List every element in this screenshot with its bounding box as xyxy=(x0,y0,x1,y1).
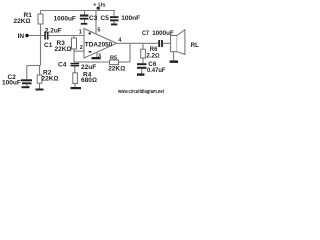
wire node A vertical (R1 bottom to bias divider) xyxy=(40,24,42,66)
wire feedback node line xyxy=(74,61,110,63)
ground C3 xyxy=(81,23,88,25)
wire C4 to R4 xyxy=(74,66,76,72)
svg-text:0.47uF: 0.47uF xyxy=(147,67,166,74)
svg-text:22KΩ: 22KΩ xyxy=(108,66,125,73)
wire C2 bottom lead xyxy=(26,84,28,86)
node IN terminal dot xyxy=(25,34,28,37)
svg-text:22KΩ: 22KΩ xyxy=(55,46,72,53)
speaker RL cone xyxy=(177,30,185,55)
wire pin 5 supply lead xyxy=(95,11,97,35)
ground C5 xyxy=(111,24,117,26)
svg-text:1: 1 xyxy=(79,30,82,36)
resistor R4 xyxy=(73,73,78,84)
wire R4 bottom lead xyxy=(74,84,76,88)
svg-text:22KΩ: 22KΩ xyxy=(42,76,59,83)
svg-text:RL: RL xyxy=(191,43,199,49)
wire C6 bottom lead xyxy=(141,69,143,74)
speaker RL body xyxy=(171,36,178,52)
svg-text:2.2uF: 2.2uF xyxy=(45,28,62,35)
label minus input mark xyxy=(89,51,92,53)
wire feedback drop to output xyxy=(129,43,131,62)
wire R1 top lead xyxy=(40,11,42,15)
capacitor C6 xyxy=(137,63,146,69)
wire R6 top lead xyxy=(142,43,144,49)
wire speaker bottom lead xyxy=(173,52,175,61)
op-amp U1 TDA2050 triangle xyxy=(84,29,117,59)
node +Us terminal dot xyxy=(97,7,100,10)
wire input from IN dot to C1 xyxy=(29,35,45,37)
svg-text:1000uF: 1000uF xyxy=(54,15,76,22)
svg-text:TDA2050: TDA2050 xyxy=(85,42,113,49)
wire R5 to output drop xyxy=(119,61,131,63)
capacitor C1 xyxy=(44,32,48,40)
svg-text:Us: Us xyxy=(98,3,105,9)
svg-text:IN: IN xyxy=(18,33,25,40)
capacitor C3 xyxy=(80,15,89,20)
svg-text:R5: R5 xyxy=(110,55,117,61)
capacitor C2 xyxy=(21,79,32,84)
wire pin 2 xyxy=(74,50,84,52)
resistor R3 xyxy=(72,38,77,49)
wire C7 to speaker xyxy=(163,42,171,44)
wire R2 bottom lead xyxy=(39,83,41,88)
resistor R2 xyxy=(37,75,42,83)
svg-text:100uF: 100uF xyxy=(2,80,21,87)
wire C5 top lead xyxy=(113,11,115,17)
svg-text:C4: C4 xyxy=(58,62,67,69)
resistor R5 xyxy=(110,60,119,65)
svg-text:2.2Ω: 2.2Ω xyxy=(146,52,160,59)
capacitor C5 xyxy=(110,16,119,21)
svg-text:4: 4 xyxy=(118,38,122,44)
ground C6 xyxy=(137,73,144,75)
capacitor C4 xyxy=(71,63,80,67)
wire C2 top lead xyxy=(26,66,28,80)
svg-text:22KΩ: 22KΩ xyxy=(14,18,31,25)
resistor R6 xyxy=(141,49,146,58)
wire output pin 4 xyxy=(117,42,159,44)
wire R3 top lead xyxy=(73,36,75,39)
ground C2 xyxy=(22,86,30,88)
svg-text:C3: C3 xyxy=(89,15,98,22)
wire pin 3 ground lead xyxy=(96,52,98,57)
svg-text:22uF: 22uF xyxy=(81,64,96,71)
ground R2 xyxy=(36,89,44,91)
svg-text:C7: C7 xyxy=(142,30,149,37)
svg-text:C1: C1 xyxy=(44,42,53,49)
ground speaker xyxy=(170,60,178,63)
wire R3 bottom / pin2 junction vertical xyxy=(73,49,75,62)
svg-text:100nF: 100nF xyxy=(121,15,140,22)
label plus input mark xyxy=(89,32,91,34)
ground R4 xyxy=(71,87,82,89)
wire +Us stub xyxy=(97,8,99,10)
wire R2 top lead xyxy=(39,66,41,76)
wire C1 to pin 1 xyxy=(48,35,84,37)
svg-text:2: 2 xyxy=(80,45,83,51)
wire R6 to C6 xyxy=(142,58,144,63)
wire C3 top lead xyxy=(84,11,86,15)
svg-text:www.circuitdiagram.net: www.circuitdiagram.net xyxy=(117,89,164,95)
ground pin 3 xyxy=(92,57,101,59)
wire top +Vs rail xyxy=(41,10,116,12)
wire C5 bottom lead xyxy=(113,21,115,23)
svg-text:C5: C5 xyxy=(101,15,110,22)
svg-text:5: 5 xyxy=(97,28,100,34)
wire C3 bottom lead xyxy=(84,20,86,23)
wire node A horizontal to C2 xyxy=(27,65,41,67)
svg-text:680Ω: 680Ω xyxy=(81,77,97,84)
capacitor C7 xyxy=(158,40,163,47)
resistor R1 xyxy=(38,14,43,24)
svg-text:+: + xyxy=(93,3,97,9)
